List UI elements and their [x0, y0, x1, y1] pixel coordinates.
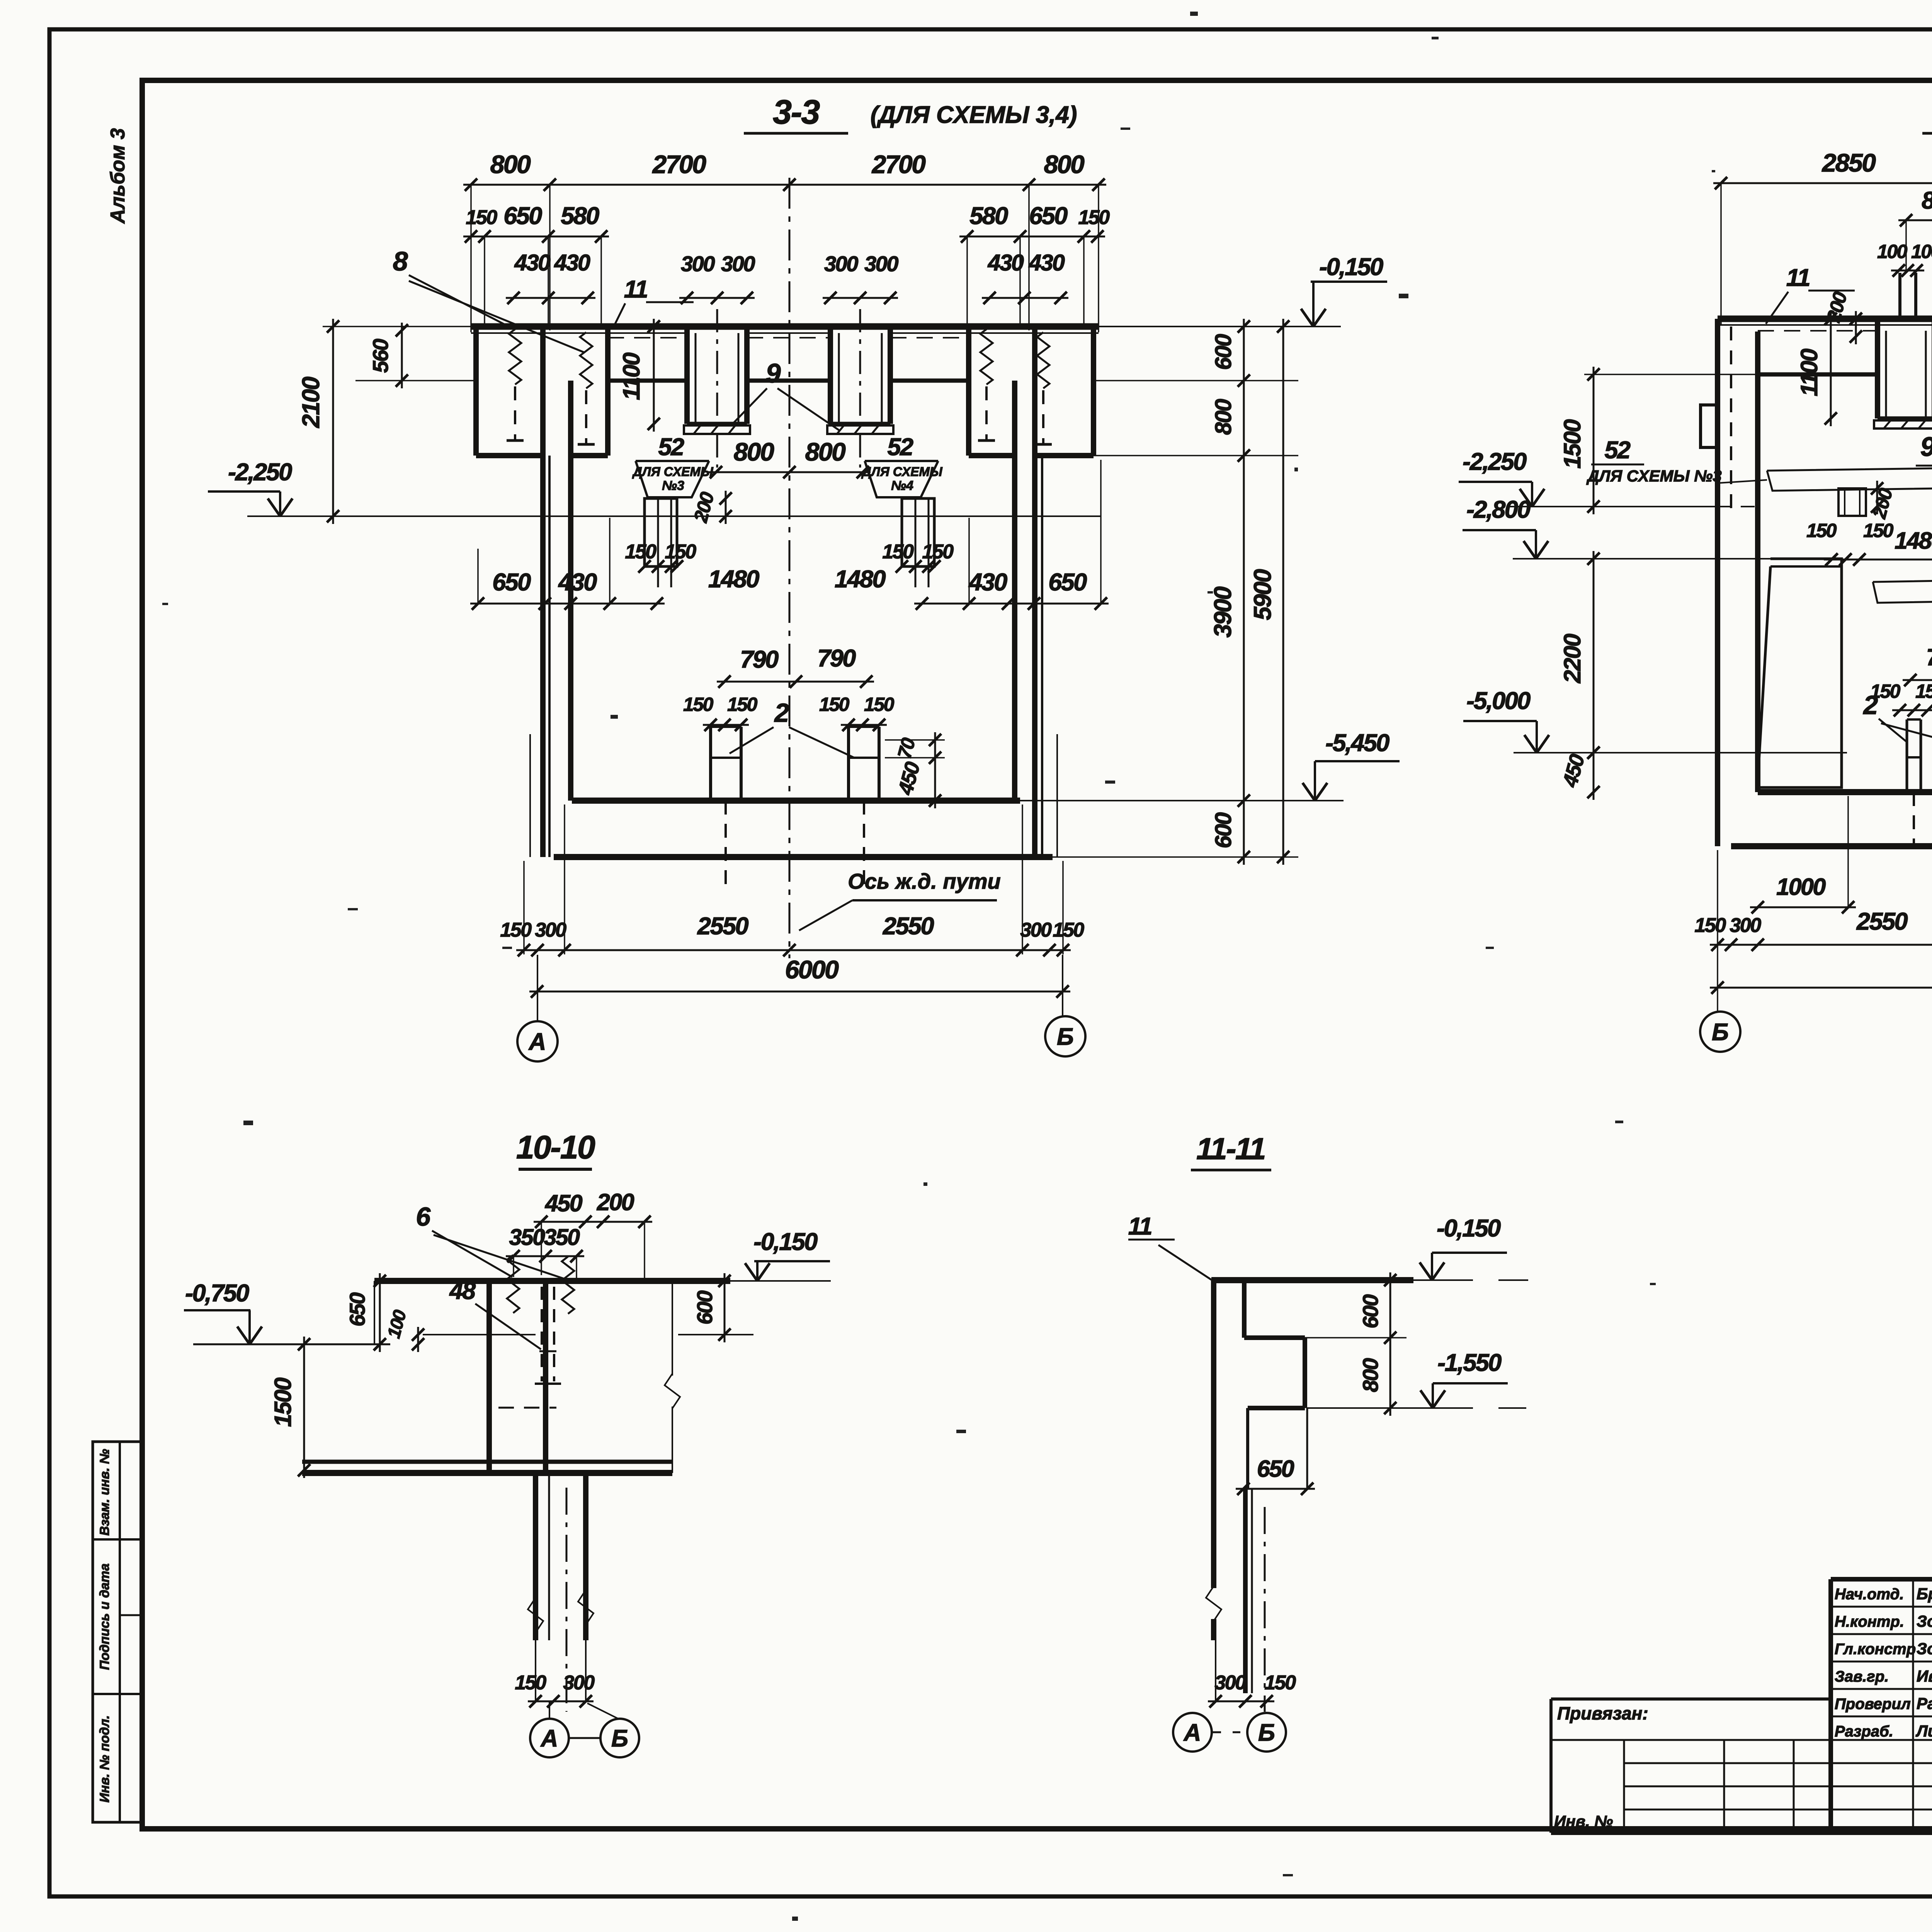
- 9-9 floor: [1758, 789, 1932, 795]
- svg-text:-1,550: -1,550: [1437, 1349, 1502, 1376]
- svg-text:790: 790: [740, 646, 779, 673]
- svg-text:Зав.гр.: Зав.гр.: [1835, 1668, 1889, 1685]
- 9-9 dim 1000: [1750, 906, 1856, 908]
- svg-text:52: 52: [658, 434, 684, 461]
- 3-3 dim 430-430 left: [506, 297, 595, 299]
- 10-10 anchor 48 dashed: [541, 1287, 543, 1381]
- svg-text:430: 430: [558, 569, 597, 596]
- svg-text:560: 560: [368, 339, 393, 373]
- svg-text:150: 150: [1915, 680, 1932, 702]
- svg-text:150: 150: [882, 541, 914, 563]
- svg-text:100: 100: [1911, 241, 1932, 262]
- svg-text:300: 300: [681, 252, 715, 276]
- svg-text:Гл.констр: Гл.констр: [1835, 1641, 1916, 1658]
- svg-text:150: 150: [1053, 919, 1084, 941]
- svg-text:1100: 1100: [618, 352, 645, 400]
- svg-text:ДЛЯ СХЕМЫ №3: ДЛЯ СХЕМЫ №3: [1586, 467, 1721, 485]
- svg-text:-0,150: -0,150: [1437, 1215, 1501, 1242]
- svg-text:ДЛЯ СХЕМЫ: ДЛЯ СХЕМЫ: [632, 464, 714, 479]
- svg-text:450: 450: [1558, 752, 1589, 790]
- 9-9 dim 450 left: [1593, 745, 1595, 800]
- svg-text:100: 100: [383, 1308, 410, 1340]
- svg-text:Н.контр.: Н.контр.: [1835, 1613, 1904, 1630]
- 10-10 top slab surface: [374, 1278, 730, 1284]
- 3-3 top slab: [471, 323, 1099, 330]
- svg-text:9: 9: [1920, 432, 1932, 462]
- svg-text:1480: 1480: [708, 566, 760, 593]
- 11-11 lower wall: [1243, 1489, 1248, 1693]
- svg-text:1500: 1500: [1559, 419, 1585, 469]
- svg-text:2700: 2700: [871, 150, 926, 179]
- svg-text:600: 600: [1358, 1294, 1383, 1328]
- 9-9 bottom dim chain: [1710, 944, 1932, 946]
- svg-text:2100: 2100: [298, 376, 325, 428]
- svg-text:800: 800: [1044, 150, 1085, 179]
- svg-text:3900: 3900: [1209, 586, 1236, 638]
- 10-10 dim 450-200: [534, 1221, 652, 1223]
- 10-10 dim 1500: [303, 1337, 305, 1478]
- svg-text:Б: Б: [1712, 1019, 1729, 1046]
- svg-text:Привязан:: Привязан:: [1557, 1703, 1648, 1723]
- 9-9 dim 1500 left: [1593, 367, 1595, 514]
- svg-text:790: 790: [1926, 644, 1932, 670]
- svg-text:№3: №3: [662, 478, 684, 493]
- 3-3 axis circle A: [537, 955, 538, 1021]
- svg-text:600: 600: [1211, 812, 1236, 849]
- svg-text:3-3: 3-3: [773, 93, 820, 131]
- 11-11 dims 600-800: [1389, 1272, 1391, 1416]
- svg-text:11: 11: [1786, 264, 1810, 291]
- svg-text:150: 150: [819, 694, 850, 715]
- svg-text:6000: 6000: [785, 955, 839, 984]
- 9-9 top dim 2850-2850: [1713, 182, 1932, 184]
- 3-3 small channel right: [902, 498, 934, 566]
- svg-text:650: 650: [345, 1293, 369, 1327]
- svg-text:Литвиненко: Литвиненко: [1915, 1722, 1932, 1740]
- 9-9 small channel left: [1838, 488, 1866, 516]
- 3-3 mid dim chain 650/430/1480: [470, 603, 665, 605]
- svg-text:52: 52: [1604, 437, 1631, 464]
- svg-text:790: 790: [817, 645, 856, 672]
- svg-text:Проверил: Проверил: [1835, 1696, 1911, 1713]
- svg-text:100: 100: [1877, 241, 1908, 262]
- 9-9 plank 52 scheme4: [1873, 577, 1932, 603]
- svg-text:2700: 2700: [652, 150, 707, 179]
- 9-9 left wall notch: [1701, 405, 1718, 447]
- svg-text:2: 2: [774, 698, 789, 728]
- svg-text:Ось ж.д. пути: Ось ж.д. пути: [848, 869, 1000, 893]
- 3-3 dim 430-430 right: [982, 297, 1068, 299]
- svg-text:6: 6: [416, 1202, 431, 1231]
- svg-text:350: 350: [509, 1225, 546, 1250]
- svg-text:-5,450: -5,450: [1325, 730, 1389, 757]
- 3-3 right upper wall: [1091, 327, 1096, 456]
- svg-text:150: 150: [1264, 1672, 1296, 1694]
- svg-text:2200: 2200: [1559, 634, 1585, 684]
- svg-text:-2,250: -2,250: [1463, 448, 1527, 475]
- svg-text:Б: Б: [611, 1725, 628, 1752]
- 9-9 left wall: [1715, 319, 1720, 846]
- svg-text:450: 450: [894, 759, 925, 798]
- 3-3 right tunnel wall: [1032, 327, 1037, 857]
- svg-text:150: 150: [683, 694, 714, 715]
- svg-text:650: 650: [1257, 1456, 1294, 1482]
- 3-3 top dim chain 800-2700-2700-800: [463, 184, 1106, 186]
- svg-text:-0,150: -0,150: [753, 1228, 818, 1255]
- svg-text:430: 430: [514, 250, 551, 276]
- 3-3 dim chain 150-650-580 left: [463, 236, 609, 238]
- 10-10 axis circles: [549, 1701, 550, 1718]
- svg-text:650: 650: [492, 569, 531, 596]
- svg-text:48: 48: [449, 1277, 476, 1304]
- 3-3 dim 300-300 right hopper: [823, 297, 898, 299]
- staff table grid: [1831, 1606, 1932, 1608]
- svg-text:2550: 2550: [697, 913, 749, 940]
- 10-10 bottom dims 150-300: [528, 1701, 594, 1702]
- 9-9 hopper necks: [1898, 273, 1901, 321]
- svg-text:150: 150: [1863, 520, 1894, 541]
- 9-9 dim 1100: [1830, 311, 1832, 426]
- svg-text:600: 600: [692, 1291, 717, 1325]
- 3-3 left upper wall: [473, 327, 479, 456]
- svg-text:1000: 1000: [1776, 874, 1826, 900]
- svg-text:150: 150: [1694, 914, 1726, 937]
- 3-3 bottom dim chain 150-300-2550-2550-300-150: [516, 949, 1071, 951]
- 3-3 axis circle B: [1062, 955, 1063, 1015]
- svg-text:№4: №4: [891, 478, 913, 493]
- 11-11 bottom dims 300-150: [1208, 1701, 1274, 1702]
- svg-text:-2,800: -2,800: [1466, 496, 1531, 523]
- 3-3 floor: [572, 798, 1020, 804]
- svg-text:А: А: [540, 1725, 558, 1752]
- scan specks: [1432, 37, 1439, 39]
- 11-11 axis circles: [1173, 1713, 1212, 1752]
- svg-text:8: 8: [393, 246, 408, 276]
- svg-text:300: 300: [824, 252, 858, 276]
- 3-3 dim 2100 left: [332, 319, 334, 524]
- svg-text:800: 800: [805, 437, 846, 466]
- 3-3 dim 5900: [1282, 319, 1284, 865]
- svg-text:650: 650: [1029, 202, 1068, 230]
- 9-9 dim 200: [1855, 311, 1857, 344]
- svg-text:800: 800: [1358, 1358, 1383, 1392]
- svg-text:Подпись и дата: Подпись и дата: [97, 1563, 112, 1670]
- svg-text:-0,750: -0,750: [185, 1280, 249, 1307]
- svg-text:А: А: [1183, 1719, 1201, 1746]
- 10-10 slab bottom: [302, 1460, 672, 1464]
- svg-text:430: 430: [988, 250, 1024, 276]
- 3-3 right hopper beam: [828, 327, 833, 424]
- svg-text:9: 9: [766, 358, 781, 388]
- 10-10 dim 650 left: [379, 1273, 381, 1352]
- 9-9 post left: [1906, 719, 1908, 792]
- 9-9 dim 800-800 necks: [1898, 219, 1932, 221]
- svg-text:150: 150: [665, 541, 696, 563]
- svg-text:Зорин: Зорин: [1917, 1639, 1932, 1658]
- svg-text:300: 300: [563, 1672, 595, 1694]
- svg-text:Зорин: Зорин: [1917, 1612, 1932, 1630]
- svg-text:Нач.отд.: Нач.отд.: [1835, 1586, 1904, 1603]
- 10-10 right slab break edge: [672, 1281, 673, 1376]
- svg-text:150: 150: [500, 919, 532, 941]
- title block outer: [1831, 1577, 1932, 1582]
- svg-text:300: 300: [1214, 1672, 1246, 1694]
- svg-text:800: 800: [490, 150, 531, 179]
- 10-10 wall upper: [486, 1281, 492, 1473]
- 9-9 dim 100-100 left neck: [1891, 270, 1924, 272]
- svg-text:300: 300: [864, 252, 898, 276]
- 3-3 dim 1100: [653, 319, 655, 432]
- svg-text:430: 430: [1029, 250, 1065, 276]
- svg-text:800: 800: [1922, 187, 1932, 214]
- svg-text:1500: 1500: [270, 1378, 296, 1427]
- 10-10 dim 350-350: [506, 1255, 584, 1257]
- svg-text:11-11: 11-11: [1196, 1131, 1265, 1166]
- svg-text:300: 300: [1730, 914, 1761, 937]
- 3-3 slab underside: [608, 379, 687, 383]
- 9-9 dim chain 150x2 1480 1480 150x2: [1824, 559, 1932, 561]
- svg-text:150: 150: [625, 541, 656, 563]
- 3-3 right hopper end plate: [827, 425, 893, 434]
- svg-text:Б: Б: [1258, 1719, 1275, 1746]
- svg-text:580: 580: [561, 202, 599, 230]
- 11-11 dim 650: [1236, 1488, 1315, 1490]
- svg-text:800: 800: [734, 437, 774, 466]
- svg-text:Разраб.: Разраб.: [1835, 1723, 1893, 1740]
- svg-text:Инв. № подл.: Инв. № подл.: [97, 1715, 112, 1803]
- 3-3 right dim column 600/800/3900/600: [1243, 319, 1245, 865]
- svg-text:150: 150: [466, 206, 497, 229]
- svg-text:150: 150: [727, 694, 758, 715]
- 3-3 posts dims 790-790: [717, 681, 874, 683]
- svg-text:10-10: 10-10: [516, 1129, 595, 1165]
- 9-9 posts dims 790-790: [1903, 679, 1932, 681]
- 9-9 tall plank: [1757, 559, 1842, 787]
- svg-text:2850: 2850: [1821, 148, 1876, 177]
- svg-text:Бродский: Бродский: [1917, 1585, 1932, 1603]
- 3-3 left hopper beam: [684, 327, 690, 424]
- 3-3 small channel left: [645, 498, 677, 566]
- 10-10 anchors springs: [507, 1255, 519, 1313]
- 3-3 right anchors: [980, 329, 993, 384]
- 3-3 left tunnel wall: [540, 327, 546, 857]
- svg-text:-5,000: -5,000: [1466, 687, 1531, 714]
- 9-9 left hopper beam: [1875, 321, 1880, 418]
- svg-text:-2,250: -2,250: [228, 459, 292, 486]
- privyazan box: [1551, 1697, 1831, 1701]
- svg-text:150: 150: [864, 694, 895, 715]
- svg-text:Взам. инв. №: Взам. инв. №: [97, 1449, 112, 1536]
- 3-3 left hopper end plate: [684, 425, 750, 434]
- 3-3 center axis: [789, 178, 791, 958]
- svg-text:2: 2: [1862, 690, 1878, 720]
- svg-text:Иванова: Иванова: [1917, 1667, 1932, 1685]
- svg-text:11: 11: [624, 276, 647, 303]
- 3-3 dim chain 580-650-150 right: [959, 236, 1105, 238]
- 3-3 post right: [847, 727, 850, 801]
- svg-text:300: 300: [535, 919, 566, 941]
- left stamp table: [93, 1442, 142, 1822]
- svg-text:Б: Б: [1057, 1024, 1074, 1050]
- svg-text:430: 430: [554, 250, 591, 276]
- 3-3 dim 560 left: [401, 323, 403, 388]
- svg-text:Инв. №: Инв. №: [1554, 1812, 1613, 1830]
- svg-text:5900: 5900: [1249, 569, 1276, 620]
- svg-text:ДЛЯ СХЕМЫ: ДЛЯ СХЕМЫ: [861, 464, 943, 479]
- svg-text:450: 450: [544, 1190, 583, 1216]
- 11-11 structure: [1211, 1277, 1413, 1283]
- 3-3 post left: [709, 727, 712, 801]
- svg-text:Альбом 3: Альбом 3: [107, 128, 129, 224]
- svg-text:(ДЛЯ СХЕМЫ 3,4): (ДЛЯ СХЕМЫ 3,4): [871, 102, 1077, 128]
- 3-3 dim 800-800 center: [708, 471, 871, 473]
- svg-text:150: 150: [1078, 206, 1110, 229]
- 3-3 dim 300-300 left hopper: [679, 297, 755, 299]
- svg-text:430: 430: [968, 569, 1007, 596]
- 3-3 dim 6000: [529, 991, 1070, 993]
- svg-text:Радько: Радько: [1917, 1694, 1932, 1713]
- svg-text:600: 600: [1211, 334, 1236, 370]
- svg-text:А: А: [528, 1029, 546, 1055]
- svg-text:650: 650: [503, 202, 542, 230]
- svg-text:-0,150: -0,150: [1319, 253, 1383, 281]
- svg-text:1480: 1480: [835, 566, 886, 593]
- svg-text:150: 150: [515, 1672, 546, 1694]
- 3-3 left anchors: [509, 329, 521, 384]
- svg-text:11: 11: [1128, 1213, 1151, 1240]
- svg-text:200: 200: [597, 1189, 634, 1215]
- svg-text:650: 650: [1048, 569, 1087, 596]
- svg-text:580: 580: [969, 202, 1008, 230]
- svg-text:200: 200: [1868, 486, 1897, 521]
- svg-text:300: 300: [721, 252, 755, 276]
- 9-9 top slab: [1718, 316, 1932, 322]
- svg-text:150: 150: [1806, 520, 1837, 541]
- svg-text:1480: 1480: [1895, 527, 1932, 554]
- svg-text:300: 300: [1020, 919, 1052, 941]
- svg-text:2550: 2550: [1856, 908, 1908, 935]
- svg-text:1100: 1100: [1796, 349, 1822, 396]
- svg-text:150: 150: [922, 541, 954, 563]
- 9-9 dim 6000: [1710, 987, 1932, 989]
- 9-9 axis circle B: [1700, 1012, 1740, 1052]
- svg-text:52: 52: [887, 434, 913, 461]
- 10-10 dim 600 right: [724, 1273, 726, 1342]
- svg-text:350: 350: [544, 1225, 580, 1250]
- 10-10 lower wall: [533, 1473, 538, 1640]
- svg-text:2550: 2550: [883, 913, 934, 940]
- 9-9 dim 2200 left: [1593, 551, 1595, 760]
- svg-text:800: 800: [1211, 399, 1236, 435]
